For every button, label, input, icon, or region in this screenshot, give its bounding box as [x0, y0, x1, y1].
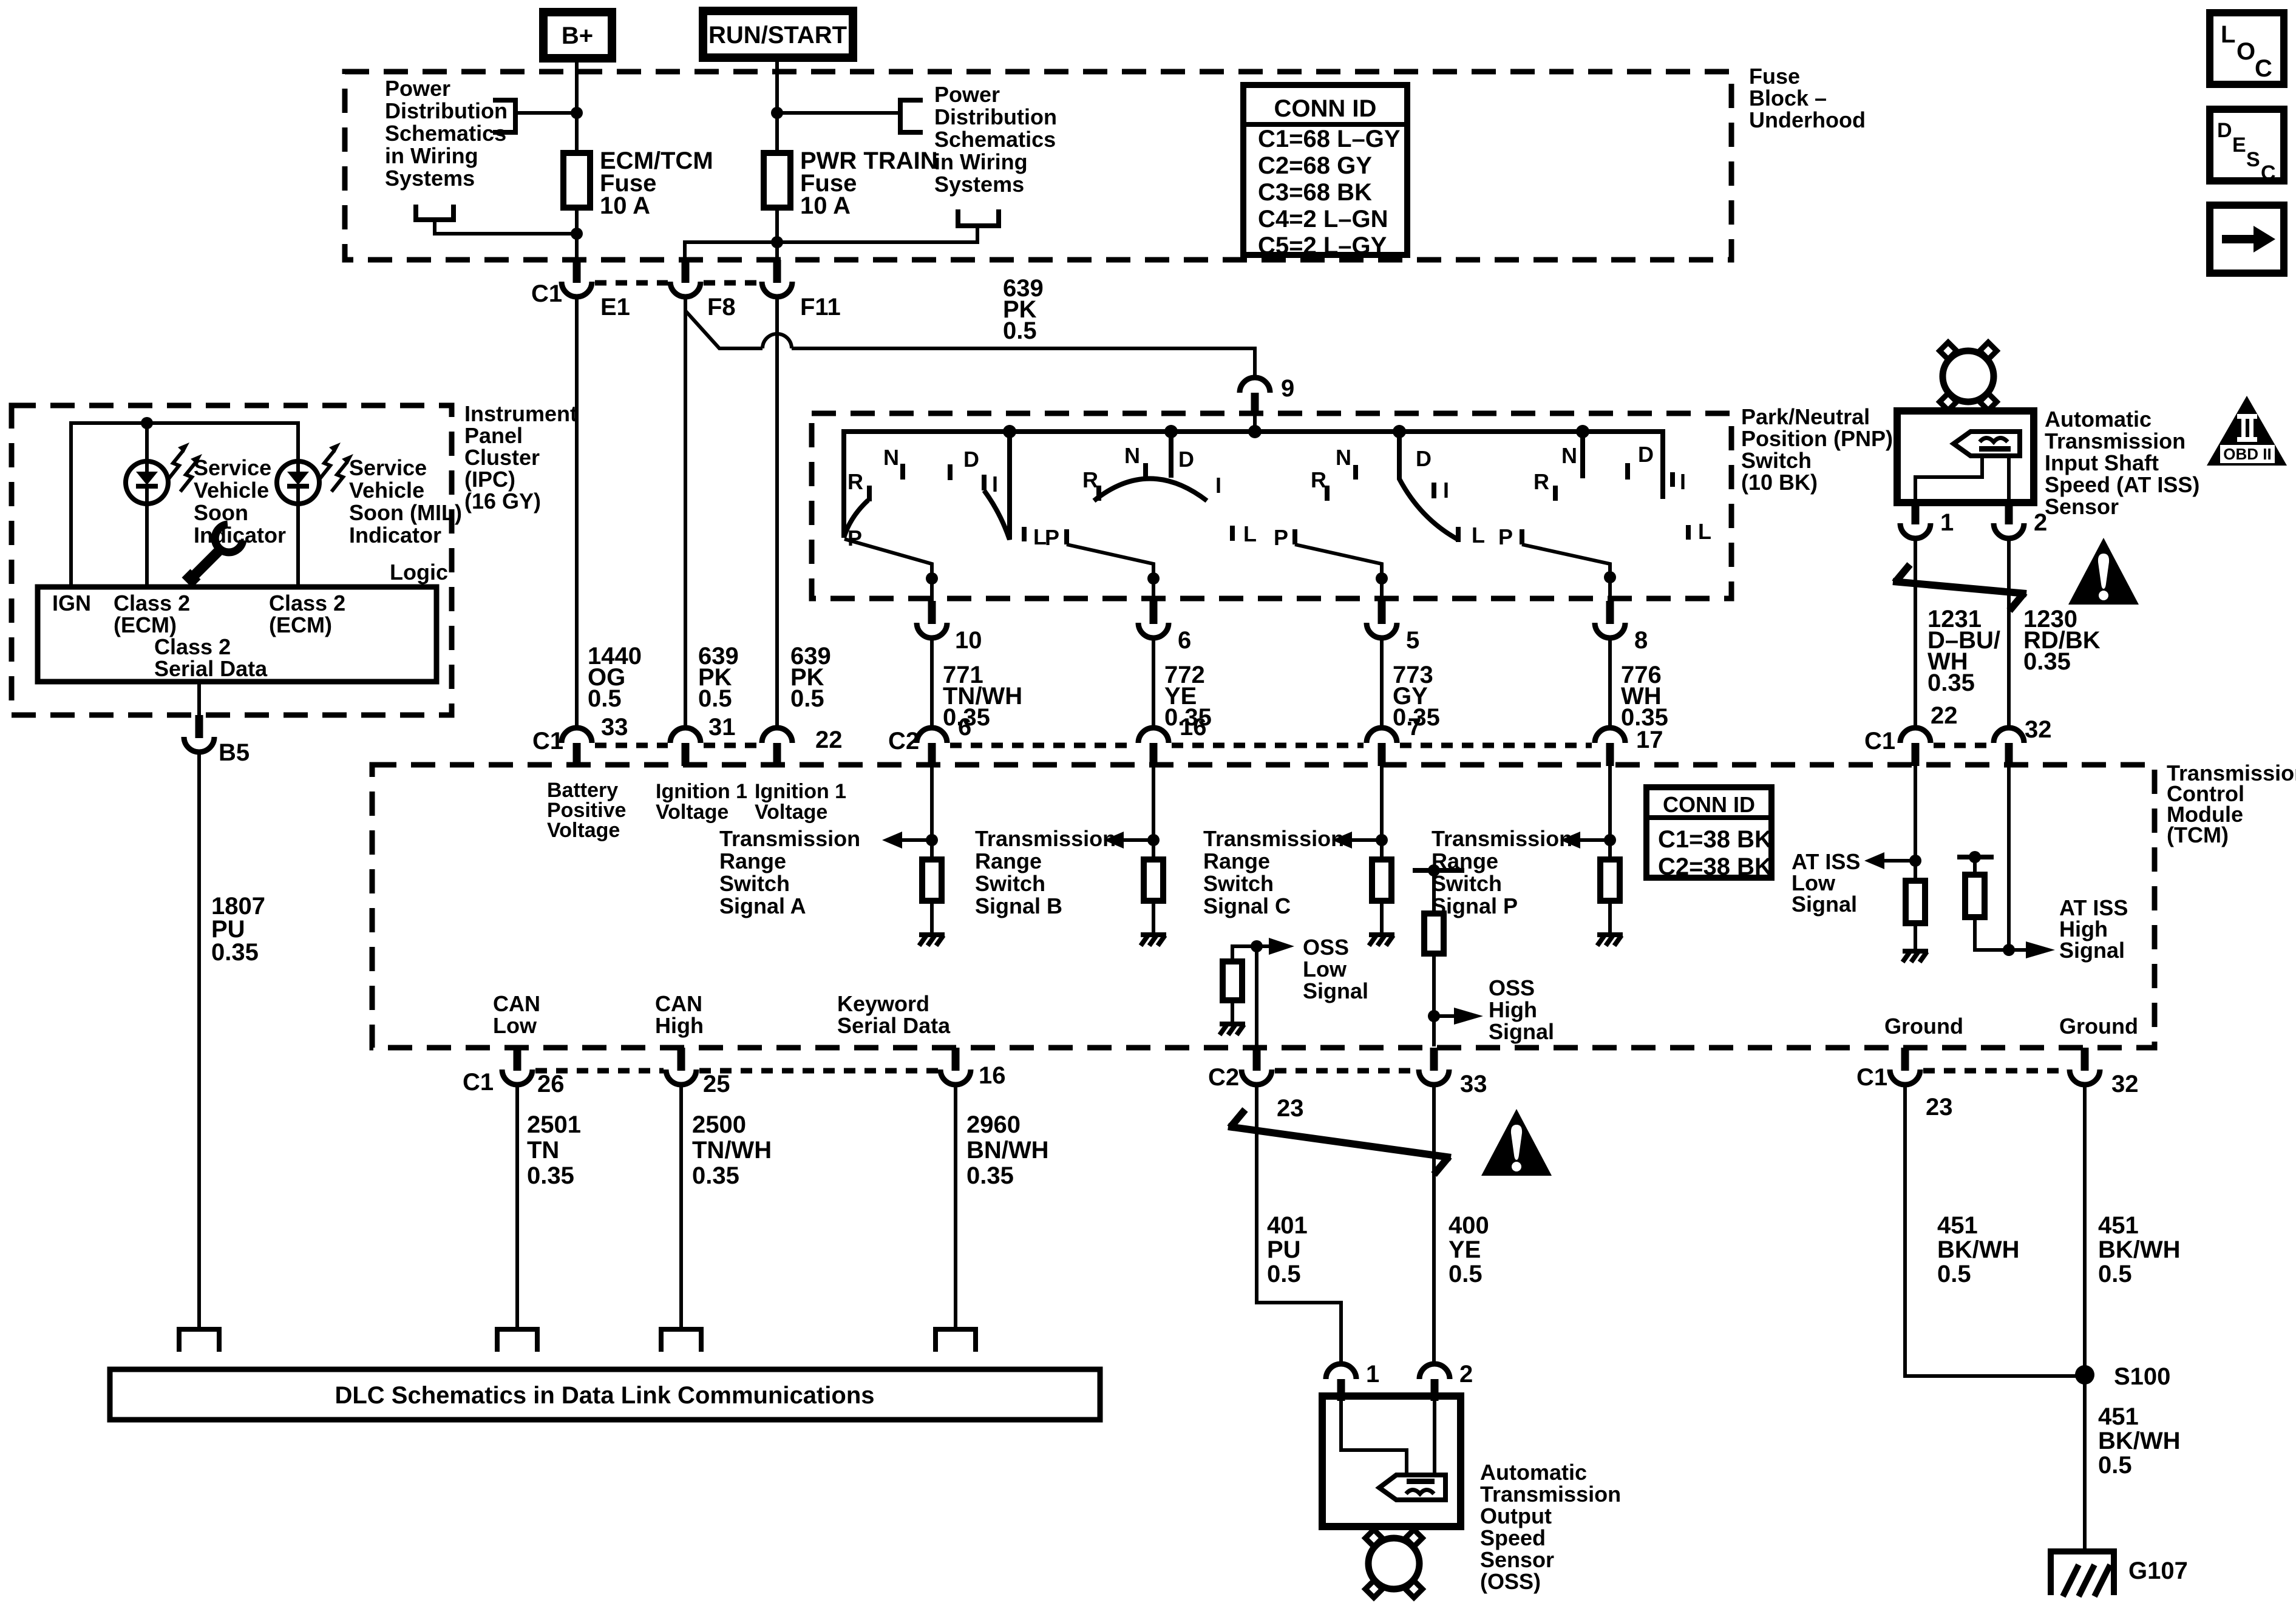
connector TCM C2 pin 6 — [888, 714, 971, 766]
svg-text:Speed (AT ISS): Speed (AT ISS) — [2045, 472, 2199, 497]
power rail box B+ — [543, 12, 612, 58]
label circuit 401 PU 0.5 — [1267, 1212, 1308, 1287]
label Power Distribution Schematics (left) — [385, 76, 508, 191]
wire RUN/START to PWR TRAIN fuse — [775, 58, 779, 260]
svg-text:C1=38 BK: C1=38 BK — [1658, 826, 1772, 853]
svg-text:C2: C2 — [1208, 1064, 1239, 1091]
resistor ISS low — [1906, 881, 1925, 923]
svg-text:L: L — [2221, 21, 2235, 48]
svg-text:L: L — [1243, 521, 1257, 546]
connector pin F11 — [762, 260, 841, 320]
svg-text:in Wiring: in Wiring — [385, 143, 478, 168]
svg-text:10 A: 10 A — [600, 192, 650, 219]
node splice S100 — [2075, 1363, 2170, 1390]
svg-text:Distribution: Distribution — [385, 98, 508, 123]
label circuit 1230 RD/BK 0.35 — [2023, 606, 2101, 675]
svg-text:P: P — [1498, 524, 1513, 549]
connector dashes 22-32 — [1934, 743, 1991, 748]
fuse block dashed box — [345, 72, 1731, 260]
label Service Vehicle Soon Indicator — [194, 455, 286, 547]
label CAN High — [655, 991, 704, 1038]
label Fuse Block Underhood — [1749, 64, 1866, 132]
svg-text:451: 451 — [2098, 1403, 2139, 1430]
svg-text:Switch: Switch — [975, 871, 1045, 896]
svg-text:I: I — [1443, 478, 1449, 503]
svg-text:D: D — [1178, 447, 1194, 472]
svg-text:High: High — [655, 1013, 704, 1038]
switch section A contacts — [847, 445, 1047, 551]
transmission case symbol (OSS) — [1365, 1530, 1422, 1598]
label circuit 451 BK/WH 0.5 (S100-G107) — [2098, 1403, 2181, 1479]
label Keyword Serial Data — [837, 991, 951, 1038]
svg-text:0.35: 0.35 — [211, 939, 259, 966]
connector OSS pin 1 — [1326, 1361, 1379, 1401]
label Automatic Transmission Input Shaft Speed Sensor — [2045, 407, 2199, 519]
resistor OSS low — [1223, 961, 1242, 1000]
svg-text:Underhood: Underhood — [1749, 107, 1866, 132]
wire CAN low to DLC (2501) — [515, 1085, 519, 1329]
svg-text:C1=68 L–GY: C1=68 L–GY — [1258, 126, 1401, 152]
node ISS low junction — [1909, 855, 1921, 867]
wire OSS internal lead 1 — [1341, 1401, 1407, 1475]
svg-text:D: D — [1638, 442, 1654, 467]
node OSS high top — [1428, 864, 1440, 876]
svg-text:C1: C1 — [531, 280, 562, 307]
svg-text:Signal: Signal — [2059, 938, 2125, 963]
svg-text:(ECM): (ECM) — [114, 612, 177, 637]
node TRS B junction — [1147, 834, 1160, 846]
bracket to Power Distribution (left) — [493, 100, 515, 132]
svg-text:C3=68 BK: C3=68 BK — [1258, 179, 1372, 206]
svg-text:8: 8 — [1634, 627, 1648, 654]
connector ISS pin 2 — [1994, 503, 2047, 538]
svg-text:C2=38 BK: C2=38 BK — [1658, 853, 1772, 880]
svg-text:Signal: Signal — [1489, 1019, 1554, 1044]
svg-text:Switch: Switch — [1432, 871, 1502, 896]
wire TCM pin32 internal — [2007, 766, 2011, 950]
switch section A output to pin 10 — [844, 539, 932, 601]
svg-text:Sensor: Sensor — [2045, 494, 2119, 519]
arrow legend box — [2210, 205, 2284, 273]
ground TRS P — [1597, 935, 1623, 946]
label AT ISS High Signal — [2059, 895, 2128, 963]
label Instrument Panel Cluster — [464, 401, 577, 514]
label circuit 773 GY 0.35 — [1393, 662, 1440, 731]
svg-text:(OSS): (OSS) — [1480, 1569, 1541, 1594]
label circuit 1231 D-BU/WH 0.35 — [1927, 606, 2000, 696]
label circuit 1807 PU 0.35 — [211, 893, 265, 966]
resistor TRS C — [1372, 859, 1391, 901]
svg-text:C1: C1 — [1864, 728, 1895, 754]
arrow ISS low — [1864, 852, 1915, 869]
DESC legend box — [2210, 109, 2284, 185]
off-page bracket 2501 — [497, 1329, 537, 1352]
connector TCM C1 pin 16 — [940, 1048, 1006, 1089]
label Transmission Range Switch Signal C — [1203, 826, 1344, 918]
AT ISS sensor box — [1897, 411, 2034, 503]
switch section P contacts — [1498, 442, 1711, 549]
svg-text:0.35: 0.35 — [527, 1162, 574, 1189]
svg-text:5: 5 — [1406, 627, 1419, 654]
wire resistor P to ground — [1608, 901, 1612, 933]
lightning arrows LED1 — [168, 442, 202, 492]
wire resistor to ground (OSS low) — [1231, 1000, 1234, 1022]
svg-text:Voltage: Voltage — [547, 819, 620, 842]
svg-text:C: C — [2261, 161, 2276, 185]
node bus dot S4 — [1576, 425, 1589, 438]
arrow ISS high — [2009, 941, 2055, 958]
wire OSS high to sensor (400 YE) — [1432, 1085, 1436, 1364]
svg-text:R: R — [1082, 467, 1098, 492]
ground OSS low — [1220, 1024, 1245, 1035]
fuse ECM/TCM 10A — [563, 147, 713, 219]
svg-text:CONN ID: CONN ID — [1663, 792, 1755, 817]
wire TCM pin6 internal — [930, 766, 934, 859]
svg-text:Transmission: Transmission — [1480, 1482, 1621, 1507]
connector TCM C2 pin 16 — [1138, 714, 1207, 766]
connector TCM C2 pin 17 — [1595, 727, 1663, 766]
lightning arrows LED2 — [319, 442, 353, 492]
wire F8 branch to PNP feed 639 PK — [685, 311, 763, 348]
label Ignition 1 Voltage (31) — [656, 780, 747, 824]
bracket below Power Distribution (right) — [958, 209, 999, 226]
connector OSS pin 2 — [1419, 1361, 1473, 1401]
wire LED1 to logic box — [145, 503, 149, 587]
svg-text:(10 BK): (10 BK) — [1741, 470, 1818, 495]
svg-text:400: 400 — [1449, 1212, 1489, 1239]
label AT ISS Low Signal — [1792, 849, 1860, 917]
svg-text:Voltage: Voltage — [656, 801, 729, 824]
svg-text:Service: Service — [349, 455, 427, 480]
svg-text:Cluster: Cluster — [464, 445, 540, 470]
arrow TRS P — [1560, 832, 1610, 849]
ground TRS C — [1369, 935, 1394, 946]
node output C — [1376, 572, 1388, 585]
svg-text:N: N — [1336, 445, 1351, 470]
wire OSS low to sensor (401 PU) — [1257, 1085, 1341, 1364]
warning triangle (OSS) — [1481, 1109, 1552, 1176]
DLC reference bar — [110, 1369, 1100, 1420]
wire B5 to DLC (1807 PU) — [197, 752, 201, 1329]
svg-text:32: 32 — [2025, 716, 2052, 743]
wire bracket down to ECM fuse rail — [435, 220, 577, 234]
svg-text:Class 2: Class 2 — [114, 591, 190, 615]
svg-text:BK/WH: BK/WH — [2098, 1236, 2181, 1263]
svg-text:N: N — [1124, 443, 1140, 468]
wire TCM pin7 internal — [1380, 766, 1384, 859]
arrow OSS high — [1434, 1008, 1483, 1025]
svg-text:CAN: CAN — [493, 991, 540, 1016]
svg-text:17: 17 — [1636, 727, 1663, 753]
svg-text:Ground: Ground — [1884, 1014, 1963, 1039]
label Class 2 Serial Data — [154, 634, 268, 681]
svg-text:Switch: Switch — [1203, 871, 1274, 896]
wire ground 32 (451) — [2083, 1085, 2087, 1375]
svg-text:Range: Range — [1203, 849, 1270, 873]
svg-text:0.5: 0.5 — [790, 685, 824, 712]
svg-text:DLC Schematics in Data Link Co: DLC Schematics in Data Link Communicatio… — [335, 1382, 874, 1409]
svg-text:23: 23 — [1926, 1094, 1953, 1120]
svg-text:BK/WH: BK/WH — [1937, 1236, 2020, 1263]
svg-text:Ground: Ground — [2059, 1014, 2138, 1039]
svg-text:C2: C2 — [888, 728, 919, 754]
svg-text:Power: Power — [934, 82, 1000, 107]
CONN ID table (fuse block) — [1243, 85, 1407, 259]
wire TCM pin22 internal — [1914, 766, 1917, 881]
svg-text:B+: B+ — [562, 22, 593, 49]
svg-text:0.35: 0.35 — [1927, 670, 1975, 696]
svg-text:Switch: Switch — [719, 871, 790, 896]
svg-text:P: P — [1045, 525, 1059, 550]
label circuit 639 PK 0.5 (PNP feed) — [1003, 275, 1044, 344]
label CAN Low — [493, 991, 540, 1038]
svg-text:OSS: OSS — [1489, 975, 1535, 1000]
svg-text:Signal B: Signal B — [975, 893, 1062, 918]
svg-text:I: I — [1680, 469, 1686, 494]
label circuit 2960 BN/WH 0.35 — [966, 1111, 1049, 1189]
svg-text:Range: Range — [719, 849, 786, 873]
wire LED1 drop — [145, 423, 149, 463]
IPC dashed box — [12, 405, 452, 715]
svg-text:Low: Low — [493, 1013, 537, 1038]
label circuit 1440 OG 0.5 — [588, 643, 642, 712]
label Park/Neutral Position Switch — [1741, 404, 1893, 495]
wire bracket to PWR rail — [777, 111, 900, 115]
off-page bracket 1807 — [179, 1329, 219, 1352]
svg-text:C2=68 GY: C2=68 GY — [1258, 152, 1372, 179]
svg-text:(16 GY): (16 GY) — [464, 489, 541, 514]
svg-text:in Wiring: in Wiring — [934, 149, 1028, 174]
svg-text:R: R — [1311, 467, 1326, 492]
svg-text:L: L — [1698, 519, 1711, 544]
svg-text:G107: G107 — [2128, 1558, 2188, 1584]
svg-text:C5=2 L–GY: C5=2 L–GY — [1258, 232, 1387, 259]
speed sensor icon (OSS) — [1379, 1475, 1445, 1500]
connector dashes F8-F11 — [704, 280, 759, 286]
label OSS Low Signal — [1303, 935, 1368, 1003]
svg-text:0.5: 0.5 — [698, 685, 732, 712]
svg-text:0.5: 0.5 — [1267, 1261, 1301, 1287]
wire TCM pin33 internal — [1432, 870, 1436, 1046]
svg-text:TN/WH: TN/WH — [692, 1137, 772, 1164]
wire S100 to G107 (451) — [2083, 1375, 2087, 1551]
ground G107 — [2051, 1551, 2188, 1596]
svg-text:TN: TN — [527, 1137, 559, 1164]
switch section A wiper P-R — [844, 500, 868, 538]
LED indicator MIL — [277, 461, 319, 504]
node junction lower ECM fuse — [571, 228, 583, 240]
connector TCM C2 pin 33 — [1419, 1048, 1487, 1097]
connector dashes 6-16-7-17 — [950, 743, 1135, 748]
arrow TRS A — [882, 832, 932, 849]
label Class 2 (ECM) 1 — [114, 591, 190, 637]
switch section P output to pin 8 — [1522, 544, 1610, 601]
label circuit 451 BK/WH 0.5 (right) — [2098, 1212, 2181, 1287]
label circuit 639 PK 0.5 (pin22) — [790, 643, 831, 712]
svg-text:451: 451 — [2098, 1212, 2139, 1239]
svg-text:26: 26 — [537, 1071, 565, 1097]
svg-text:R: R — [847, 469, 863, 494]
node junction upper PWR fuse — [771, 107, 783, 119]
svg-text:0.35: 0.35 — [692, 1162, 739, 1189]
PNP bus wire — [844, 432, 1663, 538]
svg-text:(TCM): (TCM) — [2167, 822, 2229, 847]
fuse PWR TRAIN 10A — [764, 147, 938, 219]
svg-text:Signal: Signal — [1303, 978, 1368, 1003]
switch section B common drop — [1169, 432, 1173, 478]
switch section C output to pin 5 — [1295, 544, 1382, 601]
wire bracket to B+ rail — [515, 111, 577, 115]
svg-text:Ignition 1: Ignition 1 — [656, 780, 747, 803]
connector ISS pin 1 — [1900, 503, 1954, 538]
crossover hop over F11 wire — [763, 334, 792, 348]
svg-text:Class 2: Class 2 — [154, 634, 231, 659]
connector pin 10 — [917, 601, 982, 654]
resistor ISS high — [1965, 875, 1985, 917]
svg-text:0.5: 0.5 — [2098, 1452, 2132, 1479]
svg-text:C4=2 L–GN: C4=2 L–GN — [1258, 206, 1388, 232]
svg-text:0.35: 0.35 — [966, 1162, 1014, 1189]
svg-text:D: D — [1416, 446, 1432, 471]
wire pin8 to TCM 17 (776) — [1608, 638, 1612, 728]
wire hop to connector 9 — [792, 348, 1255, 378]
svg-text:Low: Low — [1303, 957, 1347, 981]
label Battery Positive Voltage — [547, 779, 626, 842]
node output B — [1147, 572, 1160, 585]
connector TCM C1 pin 25 — [666, 1048, 730, 1097]
svg-text:Transmission: Transmission — [1432, 826, 1572, 851]
OSS sensor box — [1322, 1396, 1461, 1527]
resistor TRS P — [1600, 859, 1620, 901]
svg-text:P: P — [847, 526, 862, 551]
label Transmission Range Switch Signal B — [975, 826, 1116, 918]
svg-text:O: O — [2237, 38, 2255, 65]
svg-text:Soon (MIL): Soon (MIL) — [349, 500, 462, 525]
svg-text:Keyword: Keyword — [837, 991, 929, 1016]
svg-text:C1: C1 — [463, 1069, 494, 1096]
wire pin5 to TCM 7 (773) — [1380, 638, 1384, 728]
connector TCM pin 32 (ISS high) — [1994, 716, 2052, 766]
svg-text:N: N — [1561, 443, 1577, 468]
label Transmission Control Module — [2167, 761, 2296, 847]
svg-text:P: P — [1274, 525, 1288, 550]
label circuit 2501 TN 0.35 — [527, 1111, 581, 1189]
svg-text:33: 33 — [1460, 1071, 1487, 1097]
svg-text:401: 401 — [1267, 1212, 1308, 1239]
wire resistor to ground (ISS low) — [1914, 923, 1917, 949]
wire connector 9 to PNP bus — [1253, 415, 1257, 432]
node output A — [926, 572, 938, 585]
svg-text:OSS: OSS — [1303, 935, 1349, 960]
svg-text:Output: Output — [1480, 1503, 1552, 1528]
svg-text:Voltage: Voltage — [755, 801, 827, 824]
node OSS high arrow junction — [1428, 1010, 1440, 1022]
node LED1 branch — [141, 417, 153, 429]
wire keyword to DLC (2960) — [954, 1085, 957, 1329]
bracket below Power Distribution (left) — [416, 205, 453, 220]
wire OSS internal lead 2 — [1433, 1401, 1436, 1475]
ground ISS low — [1903, 951, 1928, 962]
resistor OSS high — [1424, 914, 1444, 954]
connector TCM C2 pin 23 — [1208, 1048, 1304, 1122]
wire ISS 2 to TCM 32 (1230) — [2007, 538, 2011, 728]
svg-text:Signal A: Signal A — [719, 893, 806, 918]
label circuit 639 PK 0.5 (pin31) — [698, 643, 739, 712]
connector dashes 26-25-16 — [535, 1068, 664, 1074]
twisted pair marker (OSS wires) — [1228, 1110, 1451, 1175]
svg-text:Power: Power — [385, 76, 450, 101]
node output P — [1604, 571, 1616, 583]
node junction upper ECM fuse — [571, 107, 583, 119]
svg-text:D: D — [2217, 119, 2232, 142]
connector pin B5 — [184, 715, 250, 766]
svg-text:Ignition 1: Ignition 1 — [755, 780, 846, 803]
svg-text:I: I — [992, 472, 998, 497]
off-page bracket 2500 — [661, 1329, 701, 1352]
logic box — [38, 587, 436, 682]
svg-text:Instrument: Instrument — [464, 401, 577, 426]
ground TRS B — [1141, 935, 1166, 946]
svg-text:Vehicle: Vehicle — [194, 478, 269, 503]
wire stub to resistor — [1973, 857, 1977, 875]
node OSS low junction — [1251, 940, 1263, 952]
switch section A common drop with wiper to I — [984, 432, 1010, 540]
svg-text:(IPC): (IPC) — [464, 467, 515, 492]
svg-text:Transmission: Transmission — [975, 826, 1116, 851]
svg-text:CAN: CAN — [655, 991, 702, 1016]
speed sensor icon (ISS) — [1954, 432, 2020, 456]
connector dashes 33-31-22 — [595, 743, 668, 748]
connector dashes 23-32 (grounds) — [1923, 1068, 2067, 1074]
svg-text:1: 1 — [1366, 1361, 1379, 1388]
arrow OSS low — [1257, 938, 1294, 955]
connector pin 5 — [1367, 601, 1419, 654]
connector TCM C1 pin 22 (ISS low) — [1864, 702, 1958, 766]
svg-text:2: 2 — [1459, 1361, 1473, 1388]
wire ISS 1 to TCM 22 (1231) — [1914, 538, 1917, 728]
wire LED2 to logic box — [296, 503, 300, 587]
switch section P common drop — [1580, 432, 1585, 478]
svg-text:33: 33 — [601, 714, 628, 741]
power rail box RUN/START — [703, 11, 853, 58]
node TRS P junction — [1604, 834, 1616, 846]
PNP dashed box — [812, 413, 1731, 598]
wrench icon — [187, 524, 243, 583]
svg-text:Systems: Systems — [385, 166, 475, 191]
svg-text:2: 2 — [2034, 509, 2047, 536]
svg-text:Schematics: Schematics — [385, 121, 506, 146]
svg-text:L: L — [1472, 523, 1485, 547]
svg-text:S100: S100 — [2114, 1363, 2170, 1390]
svg-text:Service: Service — [194, 455, 271, 480]
svg-text:Input Shaft: Input Shaft — [2045, 450, 2159, 475]
wire ground 23 (451) — [1905, 1085, 2085, 1376]
wire bracket down to F8 branch — [685, 226, 977, 260]
svg-text:Sensor: Sensor — [1480, 1547, 1554, 1572]
node bus dot conn9 — [1248, 425, 1262, 438]
label Transmission Range Switch Signal P — [1432, 826, 1572, 918]
connector TCM C1 pin 33 — [532, 714, 628, 766]
off-page bracket 2960 — [936, 1329, 976, 1352]
svg-text:Distribution: Distribution — [934, 104, 1057, 129]
svg-text:Transmission: Transmission — [2045, 429, 2186, 453]
node ISS high resistor top — [1969, 851, 1981, 863]
svg-text:31: 31 — [708, 714, 736, 741]
svg-text:23: 23 — [1277, 1095, 1304, 1122]
TCM dashed box — [372, 765, 2155, 1048]
wire F8 to TCM 31 (639 PK) — [684, 297, 687, 728]
node bus dot S2 — [1164, 425, 1178, 438]
